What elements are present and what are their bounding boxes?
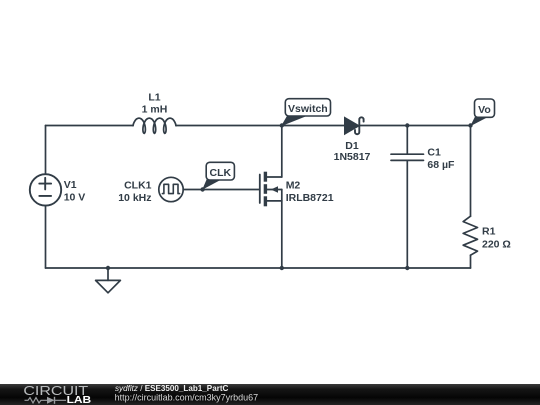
svg-text:IRLB8721: IRLB8721 [286, 192, 334, 204]
ground symbol [96, 268, 121, 293]
node CLK junction [200, 187, 204, 191]
svg-text:CLK1: CLK1 [124, 180, 152, 192]
svg-text:LAB: LAB [67, 395, 92, 405]
label R1 value [482, 239, 511, 251]
svg-text:R1: R1 [482, 226, 496, 238]
CircuitLab logo wordmark LAB [67, 395, 92, 405]
label M2 value [286, 192, 334, 204]
wire top rail: D1 cathode to Vo node [360, 125, 471, 127]
svg-text:CLK: CLK [210, 167, 232, 179]
wire left rail upper: top rail to V1 plus [45, 126, 47, 175]
footer title text [115, 384, 229, 393]
svg-text:1 mH: 1 mH [142, 104, 168, 116]
inductor L1 coil [133, 118, 176, 133]
label CLK1 [124, 180, 152, 192]
label C1 [427, 147, 441, 159]
svg-text:68 µF: 68 µF [427, 159, 455, 171]
node C1 bottom junction [405, 266, 409, 270]
wire CLK1 output to M2 gate [183, 189, 260, 191]
svg-text:V1: V1 [64, 179, 77, 191]
node Vo junction [468, 123, 472, 127]
transistor M2 drain lead [267, 176, 282, 178]
label V1 [64, 179, 77, 191]
label CLK1 value [118, 192, 151, 204]
node flag CLK [202, 162, 234, 190]
wire top rail: Vswitch node to D1 anode [282, 125, 345, 127]
CircuitLab logo diode glyph [44, 397, 66, 404]
transistor M2 gate bar [259, 175, 261, 204]
diode D1 schottky cathode bar [355, 117, 364, 134]
svg-text:http://circuitlab.com/cm3ky7yr: http://circuitlab.com/cm3ky7yrbdu67 [115, 393, 259, 403]
footer bar [0, 384, 540, 405]
svg-text:220 Ω: 220 Ω [482, 239, 511, 251]
voltage source V1 [30, 174, 61, 205]
wire MOSFET source to bottom rail [281, 190, 283, 269]
svg-text:1N5817: 1N5817 [334, 151, 371, 163]
label V1 value [64, 192, 86, 204]
label L1 value [142, 104, 168, 116]
node ground junction [106, 266, 110, 270]
wire R1 top lead [470, 126, 472, 217]
resistor R1 zigzag [463, 216, 477, 255]
node M2 source junction [280, 266, 284, 270]
transistor M2 source lead [267, 200, 282, 202]
clock source CLK1 [159, 177, 183, 201]
diode D1 triangle [345, 117, 359, 134]
label D1 value [334, 151, 371, 163]
wire top rail: V1 to L1 [46, 125, 134, 127]
wire C1 top lead [406, 126, 408, 154]
CircuitLab logo wordmark CIRCUIT [23, 384, 88, 398]
capacitor C1 plates [391, 154, 424, 160]
node flag Vo [470, 99, 494, 126]
CircuitLab logo resistor glyph [25, 398, 45, 403]
svg-text:10 V: 10 V [64, 192, 86, 204]
svg-text:10 kHz: 10 kHz [118, 192, 151, 204]
svg-text:Vswitch: Vswitch [288, 103, 328, 115]
node flag Vswitch [281, 99, 331, 127]
node C1 top junction [405, 123, 409, 127]
label D1 [345, 140, 359, 152]
svg-text:M2: M2 [286, 179, 301, 191]
label M2 [286, 179, 301, 191]
wire C1 bottom lead [406, 161, 408, 268]
svg-text:L1: L1 [148, 92, 160, 104]
wire top rail: L1 to Vswitch node [176, 125, 282, 127]
svg-text:Vo: Vo [478, 104, 491, 116]
transistor M2 body lead with arrow [267, 186, 282, 193]
wire bottom rail [46, 267, 471, 269]
wire R1 bottom lead [470, 255, 472, 268]
label L1 [148, 92, 160, 104]
node Vswitch junction [280, 123, 284, 127]
wire MOSFET drain to Vswitch node [281, 126, 283, 178]
label R1 [482, 226, 496, 238]
svg-text:C1: C1 [427, 147, 441, 159]
label C1 value [427, 159, 455, 171]
footer url text [115, 393, 259, 403]
transistor M2 channel bars [264, 172, 267, 207]
wire left rail lower: V1 minus to bottom rail [45, 206, 47, 268]
